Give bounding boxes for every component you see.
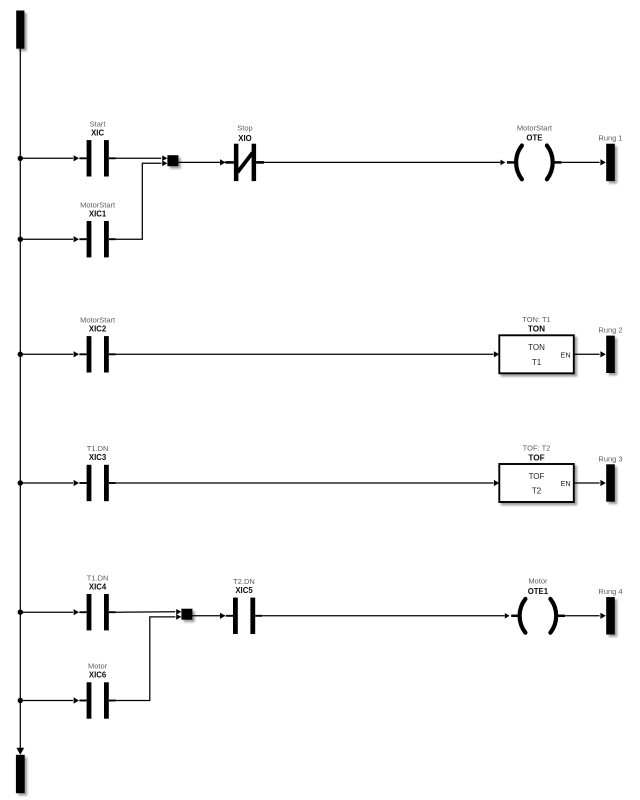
power rail top terminal bar (16, 11, 24, 49)
contact XIC4 (T1.DN) (74, 573, 116, 630)
svg-text:XIC4: XIC4 (89, 582, 107, 591)
junction block J1 input arrows (162, 155, 167, 161)
svg-text:OTE1: OTE1 (528, 587, 549, 596)
contact XIC2 (MotorStart) (74, 315, 116, 372)
svg-text:T2.DN: T2.DN (233, 577, 255, 586)
svg-text:Rung 2: Rung 2 (598, 326, 622, 335)
coil OTE (MotorStart) (507, 123, 562, 179)
svg-text:XIC6: XIC6 (89, 671, 107, 680)
junction block J2 (OR merge) (181, 609, 192, 620)
node: rail junction rung 2 (18, 352, 23, 357)
svg-text:Start: Start (90, 119, 107, 128)
svg-text:OTE: OTE (526, 133, 542, 142)
contact XIC3 (T1.DN) (74, 444, 116, 501)
svg-text:MotorStart: MotorStart (80, 200, 116, 209)
svg-text:Motor: Motor (88, 662, 108, 671)
contact XIC (Start) (74, 119, 116, 176)
contact XIC6 (Motor) (74, 662, 116, 719)
svg-text:Stop: Stop (237, 123, 252, 132)
contact XIO (Stop, normally closed) (220, 123, 264, 181)
rung 3 terminator bar (598, 454, 622, 501)
timer block TON T1 (499, 315, 574, 373)
wire: rail to T1.DN XIC3 contact (20, 482, 73, 484)
TOF timer block T2 input arrow (494, 480, 499, 486)
wire: XIC3 contact to TOF timer block (116, 482, 494, 484)
power rail bottom arrow (16, 748, 24, 755)
node: rail junction rung 1 main branch (18, 156, 23, 161)
contact XIC5 (T2.DN) (220, 577, 262, 634)
wire: XIC5 contact to Motor coil (262, 615, 504, 617)
svg-text:Rung 3: Rung 3 (598, 454, 622, 463)
svg-text:XIC1: XIC1 (89, 209, 107, 218)
wire: coil to rung 1 terminator (562, 161, 600, 163)
coil OTE (MotorStart) input arrow (501, 160, 506, 166)
wire: XIC2 contact to TON timer block (116, 353, 494, 355)
svg-text:EN: EN (561, 479, 571, 488)
node: rail junction rung 4 main branch (18, 610, 23, 615)
wire: rail to T1.DN XIC4 contact (20, 611, 73, 613)
coil OTE1 (Motor) input arrow (505, 613, 510, 619)
junction block J2 input arrows (176, 609, 181, 615)
wire: motor branch up to junction block J2 (116, 617, 176, 701)
svg-text:TON: T1: TON: T1 (522, 315, 550, 324)
svg-text:T1.DN: T1.DN (87, 444, 109, 453)
svg-text:XIC3: XIC3 (89, 453, 107, 462)
svg-text:TOF: TOF (528, 453, 544, 462)
svg-text:TON: TON (528, 343, 545, 352)
wire: rail to Start contact (20, 157, 73, 159)
svg-text:TOF: T2: TOF: T2 (523, 444, 551, 453)
coil OTE1 (Motor) (511, 577, 565, 633)
svg-text:MotorStart: MotorStart (517, 123, 553, 132)
svg-text:TON: TON (528, 325, 545, 334)
wire: rail to Motor XIC6 contact (20, 700, 73, 702)
power rail bottom terminal bar (16, 755, 25, 793)
wire: rail to MotorStart XIC2 contact (20, 353, 73, 355)
svg-text:XIC2: XIC2 (89, 324, 107, 333)
node: rail junction rung 1 seal-in branch (18, 237, 23, 242)
contact XIC1 (MotorStart seal-in) (74, 200, 116, 257)
svg-text:XIO: XIO (238, 134, 251, 143)
svg-text:Rung 4: Rung 4 (598, 587, 622, 596)
svg-text:T1: T1 (532, 358, 542, 367)
svg-text:Rung 1: Rung 1 (598, 134, 622, 143)
svg-text:XIC5: XIC5 (235, 586, 253, 595)
svg-text:TOF: TOF (529, 472, 545, 481)
rung 1 terminator bar (598, 134, 622, 181)
TON timer block T1 input arrow (494, 351, 499, 357)
node: rail junction rung 3 (18, 480, 23, 485)
svg-text:Motor: Motor (528, 577, 548, 586)
wire: left power rail (19, 49, 21, 749)
svg-text:T2: T2 (532, 487, 542, 496)
wire: junction block J2 to T2.DN contact (192, 615, 225, 617)
wire: TON block EN to rung 2 terminator (574, 353, 600, 355)
wire: XIC4 contact to junction block J2 (116, 611, 175, 613)
junction block J1 (OR merge) (167, 155, 178, 166)
svg-text:T1.DN: T1.DN (87, 573, 109, 582)
svg-text:EN: EN (561, 350, 571, 359)
rung 4 terminator bar (598, 587, 622, 634)
wire: junction block J1 to Stop contact (178, 161, 226, 163)
svg-text:MotorStart: MotorStart (80, 315, 116, 324)
wire: coil to rung 4 terminator (565, 615, 599, 617)
wire: rail to MotorStart seal-in contact (20, 238, 73, 240)
wire: seal-in branch up to junction block (116, 163, 162, 239)
node: rail junction rung 4 motor branch (18, 698, 23, 703)
wire: Stop contact to MotorStart coil (264, 161, 500, 163)
rung 2 terminator bar (598, 326, 622, 373)
svg-text:XIC: XIC (91, 128, 104, 137)
wire: TOF block EN to rung 3 terminator (574, 482, 600, 484)
wire: Start contact to junction block (116, 157, 161, 159)
timer block TOF T2 (499, 444, 574, 502)
